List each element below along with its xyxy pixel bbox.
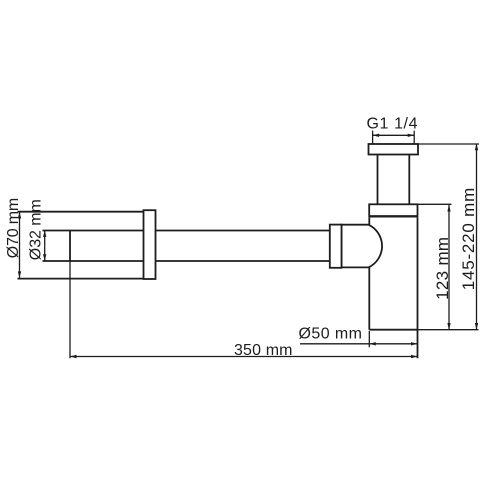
vertical inlet pipe right edge [408,155,410,205]
compression nut on horizontal tube [330,225,342,268]
dimension/leader line Ø50 [300,343,418,345]
trap top flange [369,204,417,216]
arrowhead G1 1/4 right [408,134,415,137]
trap body bottom edge [369,329,417,331]
arrowhead Ø70 top [18,212,21,219]
vertical inlet pipe left edge [377,155,379,205]
arrowhead 350 mm right [411,355,418,358]
arrowhead Ø50 right [411,342,418,345]
wall tube Ø70 decorative cup top edge / extension [18,211,144,213]
extension tick right of G1 1/4 [413,131,415,144]
arrowhead 350 mm left [70,355,77,358]
extension line Ø50 left [368,331,370,347]
extension line for 123 mm top [418,203,452,205]
svg-text:145-220 mm: 145-220 mm [459,188,478,291]
svg-text:G1 1/4: G1 1/4 [367,116,418,133]
svg-text:Ø70 mm: Ø70 mm [5,198,22,259]
trap body right edge + extension below [417,217,419,358]
dimension line G1 1/4 [373,134,415,136]
svg-text:350 mm: 350 mm [234,342,293,359]
arrowhead Ø70 bottom [18,271,21,278]
dimension line 123 mm [448,205,450,330]
extension line bottom right (body bottom extended) [418,329,479,331]
tube left end / 350 mm extension line [69,231,71,262]
arrowhead 145-220 mm bottom [475,323,478,330]
svg-text:Ø50 mm: Ø50 mm [299,325,363,342]
top threaded nut G1 1/4 [369,144,419,155]
arrowhead 145-220 mm top [475,144,478,151]
trap flange bottom lip line [369,215,417,217]
arrowhead 123 mm top [447,205,450,212]
trap body left edge [368,217,370,330]
arrowhead Ø32 top [43,230,46,237]
dimension line Ø32 [44,230,46,260]
arrowhead G1 1/4 left [373,134,380,137]
dimension line 350 mm [70,356,418,358]
dimension line 145-220 mm [476,144,478,330]
arrowhead Ø50 left [369,342,376,345]
arrowhead 123 mm bottom [447,323,450,330]
collar ring of decorative cup [144,210,156,279]
extension tick left of G1 1/4 [372,131,374,144]
arrowhead Ø32 bottom [43,254,46,261]
tailpiece tube Ø32 bottom edge / extension [43,260,330,262]
svg-text:123 mm: 123 mm [433,237,452,300]
tailpiece tube Ø32 top edge / extension [43,230,330,232]
dimension line Ø70 [19,212,21,278]
elbow end cap (bullet) [342,225,383,268]
extension line for 145-220 mm top [418,143,479,145]
svg-text:Ø32 mm: Ø32 mm [27,199,44,260]
wall tube Ø70 decorative cup bottom edge / extension [18,278,144,280]
